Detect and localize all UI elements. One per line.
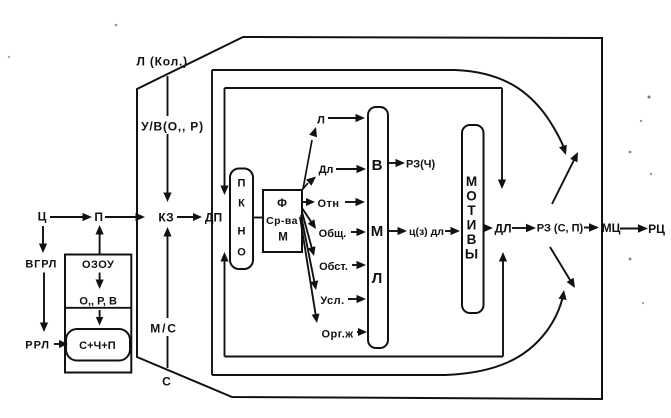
box МОТИВЫ [462, 125, 484, 313]
label О., Р, В [79, 296, 117, 308]
rect2 top edge [225, 87, 503, 89]
arrow to ц(з) дл [389, 227, 407, 235]
node РРЛ [25, 340, 50, 352]
arrow ц(з) дл to МОТИВЫ [445, 227, 460, 235]
arrow Орг.ж to ВМЛ box [357, 328, 367, 336]
svg-text:Ц: Ц [38, 210, 47, 224]
arrow РРЛ into box [54, 340, 68, 348]
svg-text:РРЛ: РРЛ [25, 340, 50, 352]
node П [94, 210, 103, 224]
arrow С up to КЗ [163, 227, 171, 368]
svg-text:Отн: Отн [317, 198, 339, 210]
fan arrow to Дл [302, 177, 316, 191]
speck [8, 56, 10, 58]
arrow to РЗ(Ч) [389, 159, 405, 167]
rect2 right bottom arrow up to ДЛ [499, 252, 507, 357]
svg-text:С: С [162, 375, 171, 389]
letters МОТИВЫ [465, 174, 478, 262]
label Ср-ва [266, 215, 298, 227]
svg-text:В: В [467, 232, 477, 247]
svg-text:М: М [278, 232, 288, 244]
label С [162, 375, 171, 389]
svg-text:МЦ: МЦ [602, 221, 621, 235]
node ДП [205, 211, 222, 225]
diagonal arrow down-right [550, 247, 575, 288]
svg-text:М: М [371, 223, 384, 240]
outer contour polygon [137, 37, 602, 399]
svg-text:Общ.: Общ. [319, 228, 347, 240]
label Дл [319, 164, 334, 176]
diagonal arrow up-right [552, 152, 578, 204]
speck [642, 302, 644, 304]
svg-text:К: К [238, 198, 245, 210]
svg-text:ц(з) дл: ц(з) дл [409, 226, 444, 238]
rect2 left top arrow down to ДП [220, 88, 228, 195]
label Усл. [320, 295, 344, 307]
arrow Усл to ВМЛ box [348, 295, 366, 303]
svg-text:С+Ч+П: С+Ч+П [79, 340, 116, 352]
fan arrow to Л [303, 127, 317, 189]
arrow Л to ВМЛ box [328, 114, 365, 122]
svg-text:Л: Л [372, 270, 383, 287]
node ДЛ [495, 222, 512, 236]
svg-text:ОЗОУ: ОЗОУ [82, 259, 114, 271]
arrow Общ to ВМЛ box [351, 228, 366, 236]
svg-text:О,, Р, В: О,, Р, В [79, 296, 117, 308]
label Общ. [319, 228, 347, 240]
svg-text:РЗ (С, П): РЗ (С, П) [537, 223, 584, 235]
svg-text:РЦ: РЦ [648, 222, 665, 236]
fan arrow to Усл [301, 215, 318, 290]
label М/С [147, 318, 183, 336]
svg-text:О: О [466, 189, 477, 204]
arrow Ц to П [50, 213, 92, 221]
speck [115, 24, 118, 27]
svg-text:Т: Т [467, 203, 476, 218]
fan arrow to Отн [302, 198, 315, 206]
svg-text:Ы: Ы [465, 247, 478, 262]
arrow МЦ to РЦ [620, 224, 648, 233]
label РЗ(Ч) [406, 159, 435, 171]
label У/В(О,, Р) [139, 116, 207, 134]
box ПКНО [230, 169, 253, 270]
svg-text:РЗ(Ч): РЗ(Ч) [406, 159, 435, 171]
node КЗ [158, 211, 173, 225]
svg-text:О: О [237, 247, 246, 259]
speck [650, 173, 652, 175]
node Ц [38, 210, 47, 224]
svg-text:В: В [372, 157, 383, 174]
rect1 bottom edge with curve arrow [212, 290, 567, 375]
small arrow to С+Ч+П [96, 310, 104, 326]
rect2 right top arrow down to ДЛ [498, 88, 506, 189]
svg-text:Обст.: Обст. [319, 261, 348, 273]
speck [629, 258, 632, 261]
arrow Дл to ВМЛ box [336, 165, 366, 173]
svg-text:П: П [238, 178, 246, 190]
svg-text:И: И [467, 218, 477, 233]
svg-text:Н: Н [238, 226, 246, 238]
rect2 left bottom arrow up to ДП [220, 252, 228, 357]
arrow ДЛ to РЗ [512, 224, 536, 233]
svg-text:Л (Кол.): Л (Кол.) [137, 55, 188, 69]
label Обст. [319, 261, 348, 273]
label ц(з) дл [409, 226, 444, 238]
label М [278, 232, 288, 244]
svg-text:ВГРЛ: ВГРЛ [25, 259, 57, 271]
box ОЗОУ [65, 255, 131, 373]
letter Л [372, 270, 383, 287]
letter М [371, 223, 384, 240]
svg-text:ДЛ: ДЛ [495, 222, 512, 236]
letter В [372, 157, 383, 174]
svg-text:Орг.ж: Орг.ж [321, 329, 353, 341]
arrow ОЗОУ box up to П [96, 225, 104, 254]
fan arrow to Общ [302, 208, 316, 229]
rect2 bottom edge [225, 356, 504, 358]
arrow Отн to ВМЛ box [345, 198, 365, 206]
svg-text:Усл.: Усл. [320, 295, 344, 307]
svg-text:Дл: Дл [319, 164, 334, 176]
arrow У/В down to КЗ [163, 76, 171, 202]
label С+Ч+П [79, 340, 116, 352]
letters ПКНО [237, 178, 246, 259]
fan arrow to Орг.ж [300, 217, 320, 323]
arrow РЗ to МЦ [584, 223, 599, 232]
node ВГРЛ [25, 259, 57, 271]
svg-text:Л: Л [317, 115, 325, 127]
box С+Ч+П [66, 329, 130, 361]
label Отн [317, 198, 339, 210]
speck [640, 120, 642, 122]
arrow КЗ to ДП [177, 213, 202, 221]
box Ф Ср-ва М [263, 190, 302, 252]
rect1 top edge with curve arrow [212, 70, 567, 155]
label Орг.ж [321, 329, 353, 341]
svg-text:КЗ: КЗ [158, 211, 173, 225]
arrow Обст to ВМЛ box [352, 261, 366, 269]
svg-text:М/С: М/С [150, 322, 177, 336]
svg-text:ДП: ДП [205, 211, 222, 225]
label Л (Кол.) [137, 55, 188, 69]
arrow Ц down to ВГРЛ [39, 226, 47, 253]
label Ф [277, 198, 287, 210]
connector ПКНО to Ф [253, 217, 263, 219]
node МЦ [602, 221, 621, 235]
node РЦ [648, 222, 665, 236]
svg-text:Ф: Ф [277, 198, 287, 210]
svg-text:М: М [466, 174, 477, 189]
divider in ОЗОУ box [65, 307, 131, 309]
box ВМЛ [368, 107, 388, 348]
rect1 left edge [211, 70, 213, 375]
arrow МОТИВЫ to ДЛ [484, 224, 493, 232]
label Л fan [317, 115, 325, 127]
svg-text:У/В(О,, Р): У/В(О,, Р) [141, 120, 204, 134]
svg-text:П: П [94, 210, 103, 224]
speck [648, 96, 651, 99]
node РЗ (С, П) [537, 223, 584, 235]
fan arrow to Обст [302, 212, 316, 256]
svg-text:Ср-ва: Ср-ва [266, 215, 298, 227]
label ОЗОУ [82, 259, 114, 271]
arrow П to КЗ [105, 213, 145, 221]
arrow ОЗОУ down [96, 273, 104, 290]
arrow ВГРЛ down to РРЛ [40, 273, 48, 333]
speck [629, 151, 632, 154]
